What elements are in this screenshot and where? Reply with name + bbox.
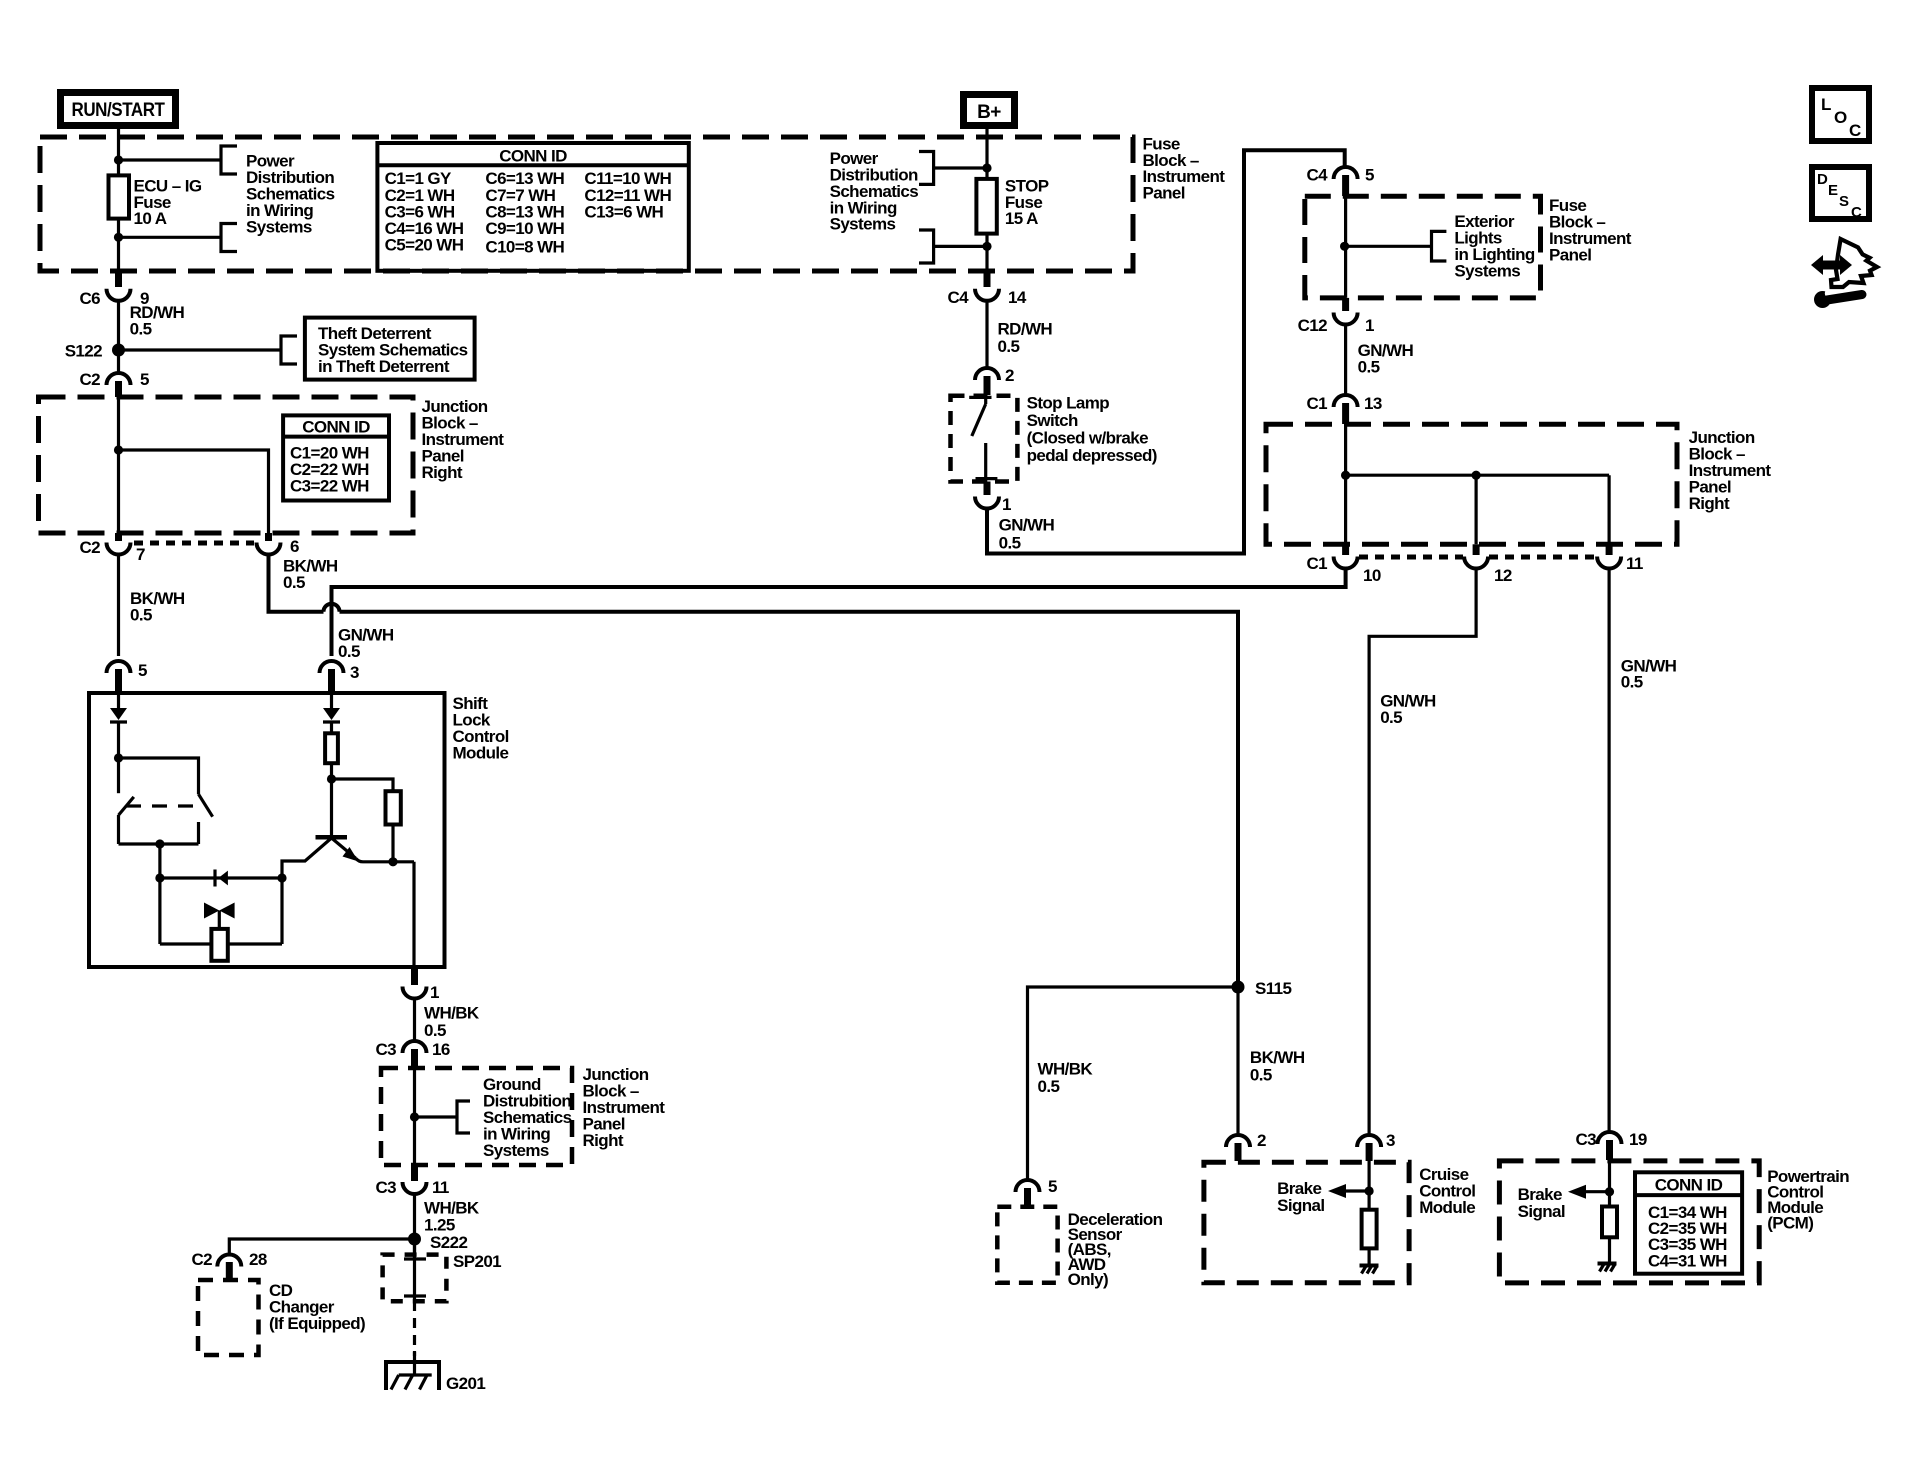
- svg-text:Systems: Systems: [483, 1141, 549, 1160]
- wire B+ to STOP fuse: [985, 125, 988, 287]
- node junction dot (ground dist): [410, 1112, 419, 1121]
- connector C4 pin 14: [947, 271, 1026, 307]
- node Theft Deterrent note box: [305, 318, 475, 380]
- switch SW2 right pole blade: [199, 794, 213, 844]
- svg-text:B+: B+: [977, 102, 1001, 123]
- node connector row dashed line (right junction block): [1359, 555, 1596, 560]
- svg-text:Systems: Systems: [246, 218, 312, 237]
- svg-text:GN/WH: GN/WH: [999, 516, 1055, 535]
- transistor Q1 base bar: [316, 835, 348, 840]
- svg-text:CONN ID: CONN ID: [499, 147, 567, 166]
- connector pin 2 stop lamp switch: [975, 366, 1014, 395]
- ground chassis (cruise): [1360, 1266, 1379, 1274]
- svg-text:Right: Right: [1689, 494, 1730, 513]
- module Deceleration Sensor dashed box: [997, 1207, 1057, 1283]
- connector C2 pin 7: [79, 533, 145, 564]
- svg-text:C3: C3: [1575, 1130, 1596, 1149]
- connector C3 pin 19 (PCM): [1575, 1130, 1646, 1160]
- svg-text:0.5: 0.5: [338, 642, 360, 661]
- wire BK/WH pin6 to S115 bus (with hop): [269, 555, 324, 612]
- connector pin 1 shift lock output: [403, 967, 440, 1002]
- svg-text:0.5: 0.5: [999, 533, 1021, 552]
- resistor R2: [386, 791, 401, 824]
- node CONN ID table (PCM): [1635, 1172, 1742, 1273]
- wire R5 to ground: [1608, 1237, 1611, 1262]
- svg-text:19: 19: [1629, 1130, 1647, 1149]
- wire inside right junction block (vertical C1-13 to C1-10): [1344, 424, 1347, 544]
- node junction dot (switch top): [114, 753, 123, 762]
- connector pin 3 cruise control: [1357, 1131, 1395, 1161]
- svg-text:1: 1: [430, 983, 439, 1002]
- svg-text:7: 7: [136, 545, 145, 564]
- node Brake Signal label (cruise): [1277, 1179, 1324, 1215]
- node splice S115: [1232, 979, 1292, 998]
- svg-text:C2: C2: [79, 538, 100, 557]
- svg-text:Systems: Systems: [830, 215, 896, 234]
- svg-text:C1: C1: [1306, 394, 1327, 413]
- svg-text:E: E: [1828, 182, 1838, 199]
- wire D3 to R1: [330, 722, 333, 733]
- svg-text:Right: Right: [583, 1131, 624, 1150]
- svg-text:10 A: 10 A: [134, 209, 167, 228]
- svg-text:2: 2: [1257, 1131, 1266, 1150]
- wire BK/WH bus to S115: [340, 612, 1239, 987]
- node junction dot (emitter node): [388, 857, 397, 866]
- connector C6 pin 9: [79, 271, 149, 308]
- resistor R1: [325, 733, 338, 763]
- node splice pack SP201 dashed box: [383, 1255, 447, 1302]
- svg-text:RD/WH: RD/WH: [998, 319, 1053, 338]
- node reference bracket upper (Power Distribution): [221, 146, 237, 174]
- value label RD/WH 0.5: [998, 319, 1053, 356]
- wire base path to transistor: [282, 838, 332, 878]
- svg-text:Module: Module: [453, 744, 509, 763]
- wire pin 12 to cruise control pin 3: [1369, 569, 1476, 1136]
- node Deceleration Sensor label: [1068, 1210, 1163, 1289]
- value label GN/WH 0.5 (PCM feed): [1621, 656, 1677, 691]
- svg-text:C12: C12: [1298, 316, 1328, 335]
- svg-text:14: 14: [1008, 288, 1027, 307]
- svg-text:Module: Module: [1419, 1198, 1475, 1217]
- connector C4 pin 5 (fuse block right): [1306, 166, 1374, 197]
- node reference bracket (Exterior Lights): [1432, 231, 1447, 261]
- value label GN/WH 0.5 (stop lamp out): [999, 516, 1055, 553]
- value label BK/WH 0.5 (pin 6 wire): [283, 557, 338, 593]
- connector C1 pin 13: [1306, 394, 1381, 424]
- svg-text:5: 5: [1048, 1177, 1057, 1196]
- fuse F1 ECU-IG 10A: [109, 175, 130, 218]
- wire dashed to G201: [413, 1301, 416, 1356]
- node junction dot (switch bottom): [155, 839, 164, 848]
- svg-text:CONN ID: CONN ID: [1655, 1176, 1723, 1195]
- value label BK/WH 0.5 (pin 7 wire): [130, 589, 185, 625]
- node reference bracket lower (Power Distribution): [221, 224, 237, 252]
- svg-text:10: 10: [1363, 566, 1381, 585]
- wire branch bus inside right JB: [1346, 474, 1610, 477]
- connector pin 6 (left junction block): [257, 533, 300, 556]
- node Junction Block label (right): [1689, 428, 1772, 513]
- node junction dot (right JB pin 12 tap): [1472, 471, 1481, 480]
- wire branch to power distribution bracket (lower): [119, 236, 222, 239]
- svg-text:SP201: SP201: [453, 1252, 501, 1271]
- svg-text:5: 5: [140, 370, 149, 389]
- wire branch to right switch pole: [119, 758, 199, 794]
- module Cruise Control Module dashed box: [1204, 1162, 1409, 1283]
- node Brake Signal label (PCM): [1518, 1185, 1565, 1221]
- resistor R4 (cruise): [1362, 1210, 1377, 1249]
- switch SW2 left pole: [119, 758, 134, 844]
- svg-text:0.5: 0.5: [283, 573, 305, 592]
- svg-text:C10=8 WH: C10=8 WH: [485, 237, 564, 256]
- node CD Changer label: [269, 1281, 365, 1333]
- svg-text:28: 28: [249, 1250, 267, 1269]
- node Powertrain Control Module label: [1767, 1167, 1849, 1233]
- wire ECU-IG fuse vertical: [117, 160, 120, 287]
- wire S115 branch to deceleration sensor: [1028, 987, 1239, 1180]
- svg-text:0.5: 0.5: [1038, 1077, 1060, 1096]
- wire pin3 entry to diode D3: [330, 693, 333, 708]
- wire loop left side down: [158, 878, 161, 944]
- wire hop over GN/WH vertical: [324, 604, 340, 612]
- svg-text:0.5: 0.5: [1358, 357, 1380, 376]
- svg-text:in Theft Deterrent: in Theft Deterrent: [318, 357, 450, 376]
- node junction dot below ECU-IG fuse: [114, 233, 123, 242]
- svg-text:5: 5: [138, 661, 147, 680]
- fuse block dashed box (exterior lights): [1305, 196, 1541, 298]
- node CONN ID table (left junction block): [283, 415, 389, 500]
- wire drop to pin 11: [1607, 475, 1610, 544]
- junction block instrument panel right dashed box (left): [39, 397, 414, 533]
- svg-text:C4=31 WH: C4=31 WH: [1648, 1252, 1727, 1271]
- value label WH/BK 1.25: [424, 1198, 480, 1234]
- wire drop to pin 12: [1474, 475, 1477, 544]
- wire R4 to ground: [1367, 1248, 1370, 1264]
- svg-text:15 A: 15 A: [1005, 209, 1038, 228]
- svg-text:Switch: Switch: [1027, 411, 1078, 430]
- value label GN/WH 0.5 (shift lock in): [338, 626, 394, 661]
- wire RUN/START to fuse block: [117, 129, 120, 160]
- node junction dot below STOP fuse: [982, 242, 991, 251]
- wire branch to exterior lights bracket: [1345, 245, 1432, 248]
- diode D2 (pointing left): [215, 870, 228, 887]
- wire switch to diode loop: [158, 844, 161, 878]
- svg-text:11: 11: [1626, 554, 1643, 573]
- svg-text:Systems: Systems: [1454, 262, 1520, 281]
- connector C3 pin 11: [375, 1165, 448, 1197]
- node junction dot (PCM brake signal): [1605, 1187, 1614, 1196]
- svg-text:Panel: Panel: [1549, 246, 1591, 265]
- node Power Distribution Schematics note (B+): [830, 149, 919, 234]
- svg-text:3: 3: [350, 663, 359, 682]
- connector C12 pin 1: [1298, 298, 1374, 335]
- svg-text:Right: Right: [422, 463, 463, 482]
- junction block instrument panel right dashed box (ground dist): [381, 1068, 572, 1165]
- svg-text:1: 1: [1365, 316, 1374, 335]
- switch SW1 contacts and blade: [969, 397, 997, 481]
- node junction dot (loop top-left): [155, 873, 164, 882]
- svg-text:C2: C2: [79, 370, 100, 389]
- node Ground Distrubition note: [483, 1075, 572, 1160]
- value label ECU-IG Fuse 10 A: [134, 176, 202, 228]
- wire through SP201 with terminals: [404, 1239, 426, 1301]
- value label WH/BK 0.5 (decel): [1038, 1060, 1094, 1096]
- node Cruise Control Module label: [1419, 1165, 1475, 1217]
- wire inside left junction block (vertical): [117, 397, 120, 533]
- node reference bracket (Theft Deterrent): [281, 336, 297, 364]
- svg-text:C6: C6: [79, 289, 100, 308]
- svg-text:Stop Lamp: Stop Lamp: [1027, 394, 1110, 413]
- svg-text:Only): Only): [1068, 1270, 1108, 1289]
- switch SW1 stop lamp switch dashed box: [951, 396, 1018, 482]
- connector pin 2 cruise control: [1226, 1131, 1266, 1161]
- svg-text:(PCM): (PCM): [1767, 1214, 1813, 1233]
- svg-text:D: D: [1817, 171, 1828, 188]
- resistor R5 (PCM): [1602, 1207, 1617, 1238]
- svg-text:0.5: 0.5: [1250, 1065, 1272, 1084]
- node Exterior Lights note: [1454, 212, 1534, 281]
- module CD Changer dashed box: [198, 1280, 259, 1355]
- switch SW2 linkage dashed line: [126, 804, 203, 807]
- wire loop bottom horizontal: [160, 942, 282, 945]
- svg-text:Signal: Signal: [1518, 1202, 1565, 1221]
- icon jump-to arrow with wrench: [1811, 239, 1877, 308]
- value label GN/WH 0.5 (C12): [1358, 341, 1414, 376]
- diode D3 (right, pointing down): [323, 708, 340, 722]
- wire brake signal arrow (PCM): [1568, 1185, 1610, 1199]
- node CONN ID table (fuse block): [377, 143, 688, 271]
- value label STOP Fuse 15 A: [1005, 176, 1049, 228]
- wire pin 11 to PCM C3-19: [1607, 569, 1610, 1133]
- connector pin 5 deceleration sensor: [1016, 1177, 1058, 1206]
- value label WH/BK 0.5: [424, 1004, 480, 1040]
- svg-text:C4: C4: [1306, 166, 1328, 185]
- svg-text:G201: G201: [446, 1374, 485, 1393]
- svg-text:0.5: 0.5: [1380, 708, 1402, 727]
- connector pin 3 shift lock module: [320, 661, 360, 692]
- svg-text:pedal depressed): pedal depressed): [1027, 446, 1157, 465]
- svg-text:0.5: 0.5: [1621, 673, 1643, 692]
- wire WH/BK 1.25 to S222: [413, 1194, 416, 1260]
- svg-text:0.5: 0.5: [130, 606, 152, 625]
- connector pin 12: [1464, 544, 1512, 585]
- svg-text:(If Equipped): (If Equipped): [269, 1314, 365, 1333]
- node Fuse Block - Instrument Panel label (left): [1143, 134, 1226, 202]
- wire collector node to R2: [332, 779, 394, 791]
- component bidirectional zener (bowtie): [204, 903, 235, 930]
- svg-text:12: 12: [1494, 566, 1512, 585]
- node Power Distribution Schematics note (left): [246, 152, 335, 237]
- svg-text:S: S: [1839, 193, 1849, 210]
- connector C1 pin 10: [1306, 544, 1380, 585]
- wire GN/WH 0.5 (C12 to C1-13): [1344, 325, 1347, 397]
- module Powertrain Control Module dashed box: [1499, 1161, 1759, 1283]
- svg-text:6: 6: [290, 537, 299, 556]
- wire module output: [412, 862, 415, 967]
- node junction dot (right JB): [1341, 471, 1350, 480]
- svg-text:1.25: 1.25: [424, 1216, 455, 1235]
- value label RD/WH 0.5 (left): [130, 303, 185, 339]
- wire GN/WH brake signal bus (C1-10 to shift lock pin 3): [332, 569, 1346, 657]
- wire WH/BK 0.5 to C3-16: [413, 999, 416, 1043]
- svg-text:13: 13: [1364, 394, 1382, 413]
- svg-text:C9=10 WH: C9=10 WH: [485, 219, 564, 238]
- ground G201: [384, 1351, 485, 1393]
- node LOC hotlink box: [1812, 88, 1869, 141]
- svg-text:BK/WH: BK/WH: [1250, 1048, 1305, 1067]
- wire PCM pin internal: [1608, 1160, 1611, 1207]
- svg-text:O: O: [1834, 108, 1847, 127]
- svg-text:WH/BK: WH/BK: [1038, 1060, 1094, 1079]
- wire S222 branch to CD changer: [229, 1239, 414, 1255]
- wire branch to power distribution bracket (upper): [119, 158, 222, 161]
- wire pin5 entry to diode D1: [117, 693, 120, 708]
- svg-text:16: 16: [432, 1040, 450, 1059]
- svg-text:S122: S122: [65, 342, 102, 361]
- node Fuse Block - Instrument Panel label (right): [1549, 196, 1632, 265]
- node splice S122: [65, 342, 125, 361]
- connector C2 pin 28: [191, 1250, 266, 1280]
- node Junction Block label (ground dist): [583, 1065, 666, 1150]
- wire inside exterior lights box: [1344, 196, 1347, 298]
- node reference bracket (Ground Distribution): [457, 1101, 470, 1133]
- svg-text:3: 3: [1386, 1131, 1395, 1150]
- svg-text:Signal: Signal: [1277, 1196, 1324, 1215]
- node junction dot above ECU-IG fuse: [114, 155, 123, 164]
- wire switch bottom bar: [119, 842, 199, 845]
- node reference bracket lower (Power Distribution B+): [919, 230, 934, 263]
- node Stop Lamp Switch label: [1027, 394, 1157, 466]
- wire loop top horizontal: [160, 876, 282, 879]
- module Shift Lock Control Module box: [89, 693, 445, 967]
- wire inside ground dist junction block: [413, 1068, 416, 1165]
- svg-text:0.5: 0.5: [998, 337, 1020, 356]
- connector C2 pin 5: [79, 370, 149, 397]
- wire RD/WH 0.5 (stop fuse to stop lamp switch): [985, 301, 988, 368]
- svg-text:C3: C3: [375, 1040, 396, 1059]
- svg-text:11: 11: [432, 1178, 449, 1197]
- node B+ power feed box: [964, 95, 1015, 126]
- wire R1 to collector node: [330, 763, 333, 779]
- transistor Q1 collector wire: [330, 779, 333, 837]
- wire BK/WH pin7 down to shift lock pin 5: [117, 555, 120, 656]
- connector pin 5 shift lock module: [107, 661, 148, 692]
- node RUN/START power feed box: [61, 93, 176, 126]
- svg-text:0.5: 0.5: [424, 1021, 446, 1040]
- svg-text:(Closed w/brake: (Closed w/brake: [1027, 429, 1149, 448]
- wire branch to ground dist bracket: [415, 1115, 458, 1118]
- svg-text:RUN/START: RUN/START: [72, 100, 166, 121]
- wire R2 to emitter node: [391, 825, 394, 862]
- wire stop lamp switch output to fuse block C4-5: [987, 150, 1345, 553]
- svg-text:C13=6 WH: C13=6 WH: [584, 202, 663, 221]
- fuse block instrument panel dashed box (left): [40, 137, 1133, 271]
- svg-text:C4: C4: [947, 288, 969, 307]
- svg-text:S222: S222: [430, 1233, 467, 1252]
- node junction dot (loop top-right): [277, 873, 286, 882]
- wire S122 branch to theft deterrent: [119, 348, 282, 351]
- wire S115 down to cruise pin 2: [1236, 987, 1239, 1135]
- node junction dot (cruise brake signal): [1365, 1186, 1374, 1195]
- wire branch to bracket upper (B+): [934, 166, 987, 169]
- svg-text:S115: S115: [1255, 979, 1292, 998]
- node splice S222: [408, 1233, 467, 1253]
- wire branch to connector 6: [119, 450, 269, 533]
- connector C3 pin 16: [375, 1040, 449, 1068]
- svg-text:CONN ID: CONN ID: [302, 418, 370, 437]
- ground chassis (PCM): [1598, 1264, 1617, 1272]
- transistor Q1 emitter with arrow: [332, 838, 415, 862]
- wire D1 to switch node: [117, 722, 120, 758]
- wire brake signal arrow (cruise): [1328, 1184, 1369, 1198]
- svg-text:WH/BK: WH/BK: [424, 1198, 480, 1217]
- node DESC hotlink box: [1812, 167, 1869, 221]
- fuse F2 STOP 15A: [976, 179, 996, 234]
- svg-text:C3=22 WH: C3=22 WH: [290, 477, 369, 496]
- svg-text:5: 5: [1365, 166, 1374, 185]
- svg-text:1: 1: [1002, 495, 1011, 514]
- svg-text:C: C: [1851, 204, 1862, 221]
- node Shift Lock Control Module label: [453, 694, 509, 763]
- connector pin 1 stop lamp switch: [975, 482, 1011, 515]
- resistor R3 (vertical on bottom wire): [211, 929, 227, 961]
- svg-text:C: C: [1849, 121, 1861, 140]
- wire branch to bracket lower (B+): [934, 245, 987, 248]
- svg-text:WH/BK: WH/BK: [424, 1004, 480, 1023]
- svg-text:C5=20 WH: C5=20 WH: [385, 235, 464, 254]
- wire cruise pin 3 internal: [1367, 1161, 1370, 1210]
- node connector row dashed line (left junction block): [134, 541, 254, 546]
- svg-text:L: L: [1821, 95, 1831, 114]
- wire loop right side down: [280, 878, 283, 944]
- value label BK/WH 0.5 (S115): [1250, 1048, 1305, 1084]
- svg-text:Panel: Panel: [1143, 184, 1185, 203]
- junction block instrument panel right dashed box (right): [1266, 424, 1677, 544]
- svg-text:2: 2: [1005, 366, 1014, 385]
- wire RD/WH 0.5 (ECU-IG to C2-5): [117, 301, 120, 374]
- svg-text:C1: C1: [1306, 554, 1327, 573]
- diode D1 (left, pointing down): [110, 708, 127, 722]
- svg-text:C2: C2: [191, 1250, 212, 1269]
- svg-text:C3: C3: [375, 1178, 396, 1197]
- node junction dot (exterior lights): [1340, 242, 1349, 251]
- node junction dot (collector node): [327, 774, 336, 783]
- svg-text:0.5: 0.5: [130, 320, 152, 339]
- node junction dot in left junction block: [114, 445, 123, 454]
- node junction dot above STOP fuse: [982, 163, 991, 172]
- node reference bracket upper (Power Distribution B+): [919, 152, 934, 185]
- node Junction Block label (left): [422, 397, 505, 482]
- connector pin 11: [1597, 544, 1643, 573]
- value label GN/WH 0.5 (cruise feed): [1380, 692, 1436, 728]
